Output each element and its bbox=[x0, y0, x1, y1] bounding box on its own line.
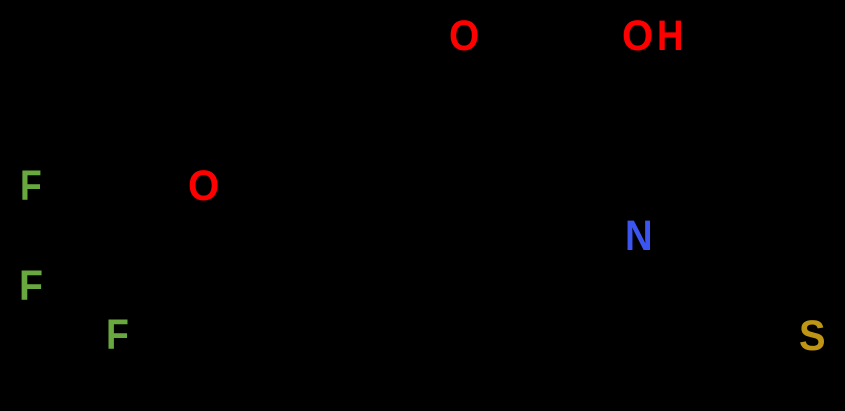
wire: ring C3 to ether O bbox=[228, 200, 290, 236]
fluorine F2 bbox=[19, 265, 43, 308]
wire: alpha carbon to N bbox=[569, 182, 624, 222]
oxygen O (hydroxyl OH) bbox=[622, 15, 653, 58]
wire: ring C1 to alpha carbon bbox=[476, 182, 569, 236]
oxygen O (carbonyl) bbox=[449, 15, 479, 58]
wire: CF3 C-F3 bbox=[115, 236, 120, 316]
wire: CF3 C-F1 bbox=[48, 196, 117, 236]
wire: alpha carbon to carboxyl carbon bbox=[551, 86, 569, 182]
wire: C=S double bond bbox=[725, 278, 800, 328]
benzene ring bbox=[290, 182, 476, 397]
fluorine F3 bbox=[106, 314, 129, 357]
sulfur S bbox=[799, 315, 826, 358]
fluorine F1 bbox=[20, 165, 42, 208]
wire: carboxyl C-OH bbox=[551, 46, 620, 86]
wire: ether O to CF3 carbon bbox=[117, 200, 188, 236]
wire: N=C double bond bbox=[655, 238, 730, 288]
wire: carboxyl C=O double bond bbox=[478, 42, 551, 86]
hydrogen H (hydroxyl OH) bbox=[657, 15, 683, 58]
oxygen O (ether) bbox=[188, 165, 219, 208]
nitrogen N bbox=[625, 215, 653, 258]
wire: CF3 C-F2 bbox=[48, 236, 117, 276]
